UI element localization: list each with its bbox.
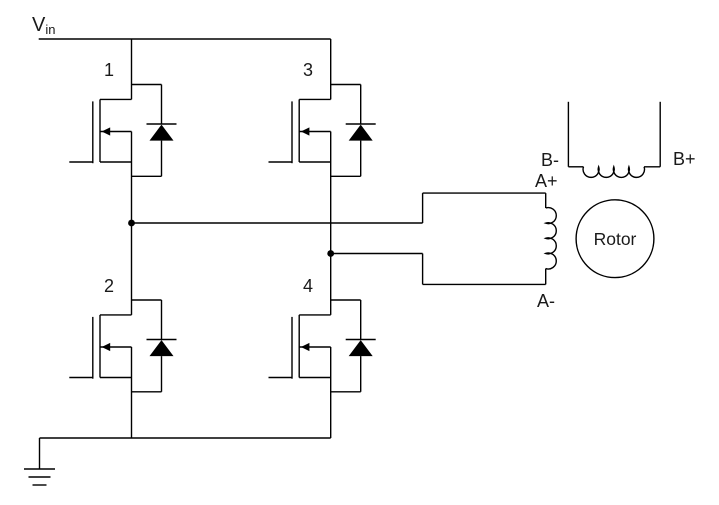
body diode of Q1 [132, 85, 177, 177]
junction node A- [327, 250, 334, 257]
wire: right branch Q3 source down to node A- (crosses wire A+) [330, 162, 332, 315]
svg-text:3: 3 [303, 60, 313, 80]
svg-text:B+: B+ [673, 149, 696, 169]
wire: left branch Q1 source down to node A+ [131, 162, 133, 223]
transistor Q1 (label 1) [69, 60, 131, 163]
wire: Vin top rail [39, 38, 331, 40]
svg-text:A-: A- [537, 291, 555, 311]
wire: ground rail [40, 437, 331, 439]
svg-text:A+: A+ [535, 171, 558, 191]
wire: right branch drain of Q3 from rail [330, 39, 332, 99]
svg-text:Rotor: Rotor [594, 229, 637, 249]
wire: left branch Q2 source down to ground rail [131, 378, 133, 439]
wire: left branch node A+ down to Q2 drain [131, 223, 133, 315]
wire: node A+ horizontal to winding A top terminal [132, 222, 423, 224]
body diode of Q2 [132, 300, 177, 392]
inductor winding A (phase A coil) [546, 193, 557, 284]
wire: left branch drain of Q1 from rail [131, 39, 133, 99]
wire: right branch Q4 source down to ground rail [330, 378, 332, 439]
svg-text:1: 1 [104, 60, 114, 80]
transistor Q3 (label 3) [269, 60, 331, 163]
transistor Q2 (label 2) [69, 276, 131, 379]
rotor circle [576, 200, 654, 278]
wire: winding A left terminal down [422, 254, 424, 285]
svg-text:Vin: Vin [32, 14, 55, 37]
ground [24, 438, 55, 485]
body diode of Q4 [331, 300, 376, 392]
svg-text:4: 4 [303, 276, 313, 296]
svg-text:B-: B- [541, 150, 559, 170]
wire: winding A left terminal up [422, 193, 424, 223]
wire: node A- horizontal to winding A bottom terminal [331, 253, 423, 255]
junction node A+ [128, 220, 135, 227]
transistor Q4 (label 4) [269, 276, 331, 379]
svg-text:2: 2 [104, 276, 114, 296]
inductor winding B (phase B coil) [568, 102, 660, 178]
body diode of Q3 [331, 85, 376, 177]
